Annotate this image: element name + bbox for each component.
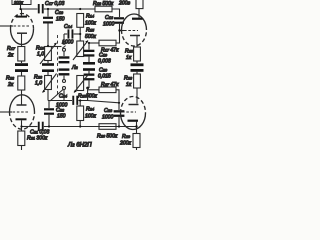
junction dot rail/anode <box>135 125 137 127</box>
svg-text:R27 47к: R27 47к <box>101 82 119 88</box>
tube Л1a envelope (top-left triode) <box>11 13 34 44</box>
cathode lead wire <box>21 34 23 47</box>
bottom rail wire <box>22 126 38 128</box>
capacitor C21 plates <box>38 122 44 131</box>
resistor R20 1к <box>134 47 141 63</box>
svg-text:R24: R24 <box>86 107 95 113</box>
wire pot R19 to ground <box>47 61 49 64</box>
capacitor C23 <box>114 110 125 126</box>
svg-text:R15: R15 <box>86 28 95 34</box>
capacitor C13 <box>114 17 124 30</box>
svg-text:1000: 1000 <box>103 22 114 28</box>
svg-text:C13: C13 <box>105 15 114 21</box>
grid (dashed) of Л2b <box>122 111 136 113</box>
svg-text:R18 500к: R18 500к <box>93 1 114 7</box>
junction dot <box>118 29 120 31</box>
capacitor C22 <box>44 101 54 127</box>
anode lead wire <box>21 9 23 16</box>
wire R17h right to node <box>116 31 120 44</box>
wire rail to corner <box>112 9 120 17</box>
anode plate of Л1a <box>16 16 27 18</box>
wire top rail <box>21 8 38 10</box>
cathode of Л2a <box>17 104 27 106</box>
svg-text:1,0: 1,0 <box>37 52 44 58</box>
grid (dashed) of Л1a <box>14 25 30 27</box>
resistor 300к (top edge, cropped) <box>12 0 31 9</box>
ground above C20 <box>83 68 95 71</box>
resistor R26 500к (horizontal on bottom rail) <box>99 124 116 130</box>
wire mid-top y34 <box>64 33 67 35</box>
resistor R21 300к <box>18 131 25 150</box>
resistor R14 100к <box>77 14 84 28</box>
wire top rail continues <box>44 8 95 10</box>
grid input wire <box>0 25 13 27</box>
svg-text:R21 300к: R21 300к <box>27 136 48 142</box>
capacitor C17 plates <box>38 4 44 13</box>
potentiometer R23 <box>43 72 57 101</box>
potentiometer R25 500к <box>74 75 88 93</box>
wire y43 to R17h <box>89 42 99 44</box>
svg-text:100к: 100к <box>85 21 96 27</box>
anode plate of Л1b <box>132 18 143 20</box>
wire C14 to junction <box>74 33 81 35</box>
svg-text:R28: R28 <box>124 76 133 82</box>
capacitor C19 <box>84 43 95 62</box>
resistor R28 1к <box>134 72 141 104</box>
anode lead <box>21 120 23 131</box>
cathode of Л2b <box>129 104 139 106</box>
svg-text:R25500к: R25500к <box>78 94 98 100</box>
switch arm tick top <box>62 46 65 49</box>
resistor R18 500к (horizontal on top rail) <box>95 6 112 12</box>
svg-text:R20: R20 <box>125 49 134 55</box>
wire node to grid Л1b <box>120 30 125 32</box>
cathode lead <box>136 36 138 47</box>
ground above R28 <box>131 69 144 72</box>
svg-text:0,015: 0,015 <box>98 74 111 80</box>
svg-text:2к: 2к <box>7 53 14 59</box>
ground under R19 <box>42 63 54 66</box>
wire pot R19 top to switch <box>48 46 62 48</box>
svg-text:200в: 200в <box>118 1 130 7</box>
tube Л2b envelope (bottom-right triode) <box>121 97 146 130</box>
svg-text:200к: 200к <box>119 141 131 147</box>
cathode of Л1b <box>130 35 140 37</box>
cathode of Л1a <box>17 32 27 34</box>
gang dashed link <box>57 35 59 96</box>
grid input wire <box>0 111 12 113</box>
potentiometer R19 <box>40 43 57 64</box>
capacitor C24 plates <box>72 96 78 105</box>
wire C23 node to grid Л2b <box>116 111 122 113</box>
capacitor C20 <box>84 71 95 88</box>
svg-text:2к: 2к <box>7 82 14 88</box>
svg-text:Л2 6Н2П: Л2 6Н2П <box>67 143 92 149</box>
ground under R17 <box>15 63 28 66</box>
ground under R20 <box>131 63 144 66</box>
grid (dashed) of Л1b <box>124 30 138 32</box>
svg-text:1000: 1000 <box>102 115 113 121</box>
wire C24 to C23 node <box>78 101 119 103</box>
svg-text:150: 150 <box>56 17 65 23</box>
bottom rail continues <box>44 126 137 128</box>
resistor R17 (cathode 2к) <box>18 47 25 64</box>
svg-text:C14: C14 <box>64 24 73 30</box>
wire lower signal y100.5 <box>48 100 72 102</box>
svg-text:0,003: 0,003 <box>98 59 111 65</box>
ground above R23 <box>42 69 54 72</box>
resistor R27 47к (horizontal) <box>99 87 116 93</box>
svg-text:Л2: Л2 <box>71 65 79 71</box>
wire R27 right to node column <box>116 90 119 110</box>
switch contacts column (top half) <box>59 34 70 63</box>
grid (dashed) of Л2a <box>13 111 29 113</box>
junction dots <box>19 8 120 128</box>
svg-text:C23: C23 <box>104 108 113 114</box>
anode lead <box>138 9 140 18</box>
svg-text:R26 500к: R26 500к <box>97 134 118 140</box>
ground under C19 <box>83 62 95 65</box>
supply resistor 200в (top edge) <box>136 0 143 9</box>
svg-text:R14: R14 <box>86 14 95 20</box>
resistor R22 2к <box>18 72 25 105</box>
potentiometer R15 500к <box>73 41 88 61</box>
svg-text:1000: 1000 <box>62 40 73 46</box>
svg-text:C18: C18 <box>55 10 64 16</box>
anode lead <box>136 122 138 134</box>
anode plate of Л2a <box>16 118 27 120</box>
svg-text:1к: 1к <box>126 82 132 88</box>
svg-text:R29: R29 <box>122 134 131 140</box>
ground above R22 <box>15 69 28 72</box>
switch arm diagonal <box>50 90 63 102</box>
wire node to R27 <box>88 89 99 91</box>
svg-text:R17: R17 <box>7 46 16 52</box>
node junction dot <box>86 87 89 90</box>
anode plate of Л2b <box>128 120 139 122</box>
tube Л1b envelope (top-right triode) <box>122 14 147 46</box>
resistor R24 100к <box>77 101 84 127</box>
tube Л2a envelope (bottom-left triode) <box>10 95 35 129</box>
resistor R29 200к <box>133 134 140 151</box>
resistor R17 47к (horizontal) <box>99 40 116 46</box>
svg-text:C17 0,03: C17 0,03 <box>45 1 65 7</box>
svg-text:C24: C24 <box>59 94 68 100</box>
svg-text:R22: R22 <box>6 76 15 82</box>
svg-text:500к: 500к <box>85 34 96 40</box>
junction R14 column <box>79 27 81 41</box>
capacitor C18 <box>43 9 53 46</box>
svg-text:1к: 1к <box>126 55 132 61</box>
capacitor C14 plates <box>68 29 74 38</box>
switch contacts column (bottom half) <box>59 68 70 100</box>
svg-text:150: 150 <box>57 114 66 120</box>
svg-text:100к: 100к <box>85 114 96 120</box>
svg-text:300к: 300к <box>14 0 24 5</box>
svg-text:1,0: 1,0 <box>35 81 42 87</box>
wire node down to low rail <box>87 88 89 101</box>
